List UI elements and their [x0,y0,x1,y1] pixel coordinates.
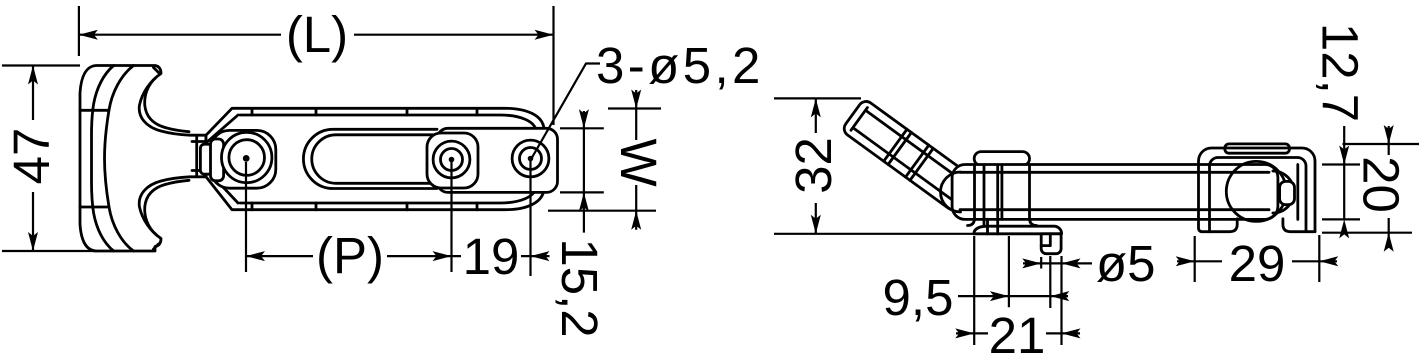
svg-text:9,5: 9,5 [883,269,954,326]
svg-text:12,7: 12,7 [1312,23,1369,122]
svg-text:ø5: ø5 [1096,235,1156,292]
svg-text:21: 21 [989,307,1046,362]
svg-text:(P): (P) [316,227,384,284]
svg-text:3-ø5,2: 3-ø5,2 [596,37,764,94]
svg-text:15,2: 15,2 [551,238,608,337]
svg-text:32: 32 [785,137,842,194]
svg-text:47: 47 [3,128,60,185]
svg-text:W: W [610,138,667,186]
svg-text:19: 19 [463,228,520,285]
svg-text:(L): (L) [286,6,348,63]
svg-text:20: 20 [1353,156,1410,213]
svg-text:29: 29 [1229,235,1286,292]
